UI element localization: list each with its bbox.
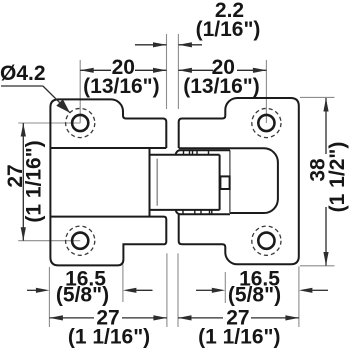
- arm left edge (thin overlap line): [229, 150, 231, 213]
- extension line: bottom-right plate left step: [224, 272, 226, 303]
- svg-text:(5/8"): (5/8"): [56, 283, 109, 306]
- cup inner edge line (gray): [156, 159, 158, 206]
- hinge arm (right leaf, middle band with rounded nose): [179, 148, 278, 213]
- leader line for hole diameter callout: [1, 85, 43, 87]
- svg-text:Ø4.2: Ø4.2: [0, 62, 46, 85]
- extension line: top-left hole center vertical: [18, 34, 334, 327]
- screw hole top-left (bore + counterbore): [66, 108, 281, 255]
- knuckle barrel strip top: [176, 150, 230, 154]
- knuckle cup rectangle: [150, 148, 220, 217]
- dimension 2.2: outside arrows: [135, 44, 167, 46]
- extension line: bottom gap left: [166, 253, 168, 327]
- extension line: bottom-right plate right edge: [298, 266, 300, 327]
- svg-text:(1 1/16"): (1 1/16"): [198, 326, 280, 349]
- svg-text:(13/16"): (13/16"): [183, 75, 260, 98]
- knuckle segment tick marks top: [184, 150, 209, 154]
- extension line: bottom-left plate edge: [48, 267, 50, 327]
- dimension 27 bottom-right: [178, 317, 223, 319]
- extension line: gap left (2.2 dim): [166, 34, 168, 109]
- dimension 27 left vertical: [22, 123, 24, 241]
- extension line: bottom-left tab right edge: [122, 265, 124, 303]
- left hinge leaf outline: [50, 99, 166, 265]
- svg-text:(5/8"): (5/8"): [228, 283, 281, 306]
- clip lug on arm: [220, 176, 229, 189]
- dimension 38 right vertical: [325, 98, 327, 154]
- svg-text:(1 1/16"): (1 1/16"): [22, 140, 45, 222]
- extension line: left hole horizontals for 27 vertical dim: [18, 122, 80, 124]
- svg-text:(1 1/16"): (1 1/16"): [68, 326, 150, 349]
- right hinge leaf outline: [179, 98, 299, 264]
- dimension 20 right: line and arrows: [178, 69, 213, 71]
- extension line: top-right hole center vertical: [265, 60, 267, 123]
- dimension 16.5 bottom-right: outside arrows: [196, 289, 212, 291]
- screw hole top-right: [258, 115, 274, 131]
- svg-text:(1 1/2"): (1 1/2"): [326, 142, 349, 213]
- extension line: bottom gap right: [177, 253, 179, 327]
- screw hole bottom-left: [72, 233, 88, 249]
- dimension 16.5 bottom-left: outside arrows: [27, 289, 36, 291]
- screw hole bottom-right: [258, 233, 274, 249]
- dimension 27 bottom-left: [49, 317, 94, 319]
- svg-text:(13/16"): (13/16"): [83, 75, 160, 98]
- knuckle barrel strip bottom: [176, 210, 230, 214]
- knuckle segment tick marks bottom: [183, 210, 212, 214]
- extension line: gap right (2.2 dim): [177, 34, 179, 109]
- svg-text:(1/16"): (1/16"): [196, 18, 261, 41]
- dimension 20 left: line and arrows: [1, 42, 329, 320]
- extension line: 38 dim horizontals: [300, 96, 335, 98]
